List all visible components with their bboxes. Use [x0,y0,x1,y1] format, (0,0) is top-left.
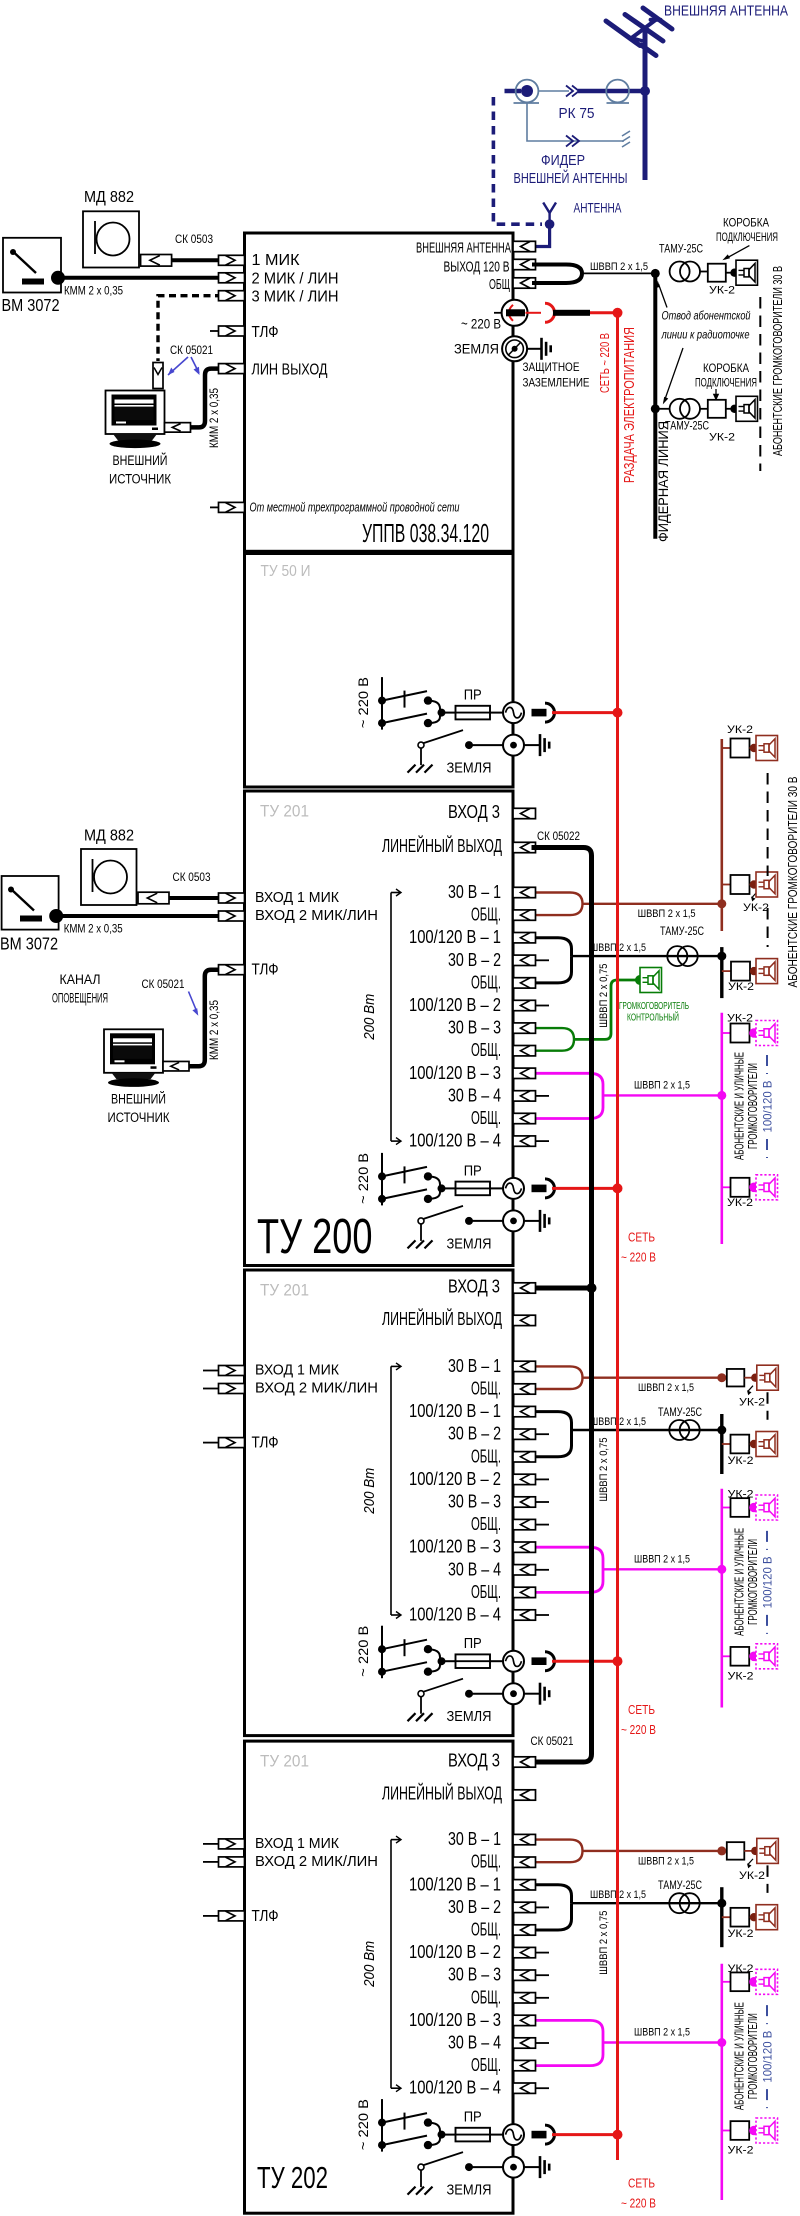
ground symbol (earth hatches) [408,765,433,773]
block ТУ 50 И outline [245,554,514,788]
svg-text:30 В – 3: 30 В – 3 [448,1018,501,1038]
svg-text:УК-2: УК-2 [739,1397,765,1409]
label ОБЩ. (ТУ200) [471,1040,501,1060]
svg-text:УК-2: УК-2 [727,1197,753,1209]
svg-text:ТАМУ-25С: ТАМУ-25С [658,1880,702,1892]
arrow chevrons on spare feeder [566,136,579,147]
speaker ГР (br1) [756,736,778,761]
label 30 В – 2 (ТУ202) [448,1897,501,1917]
device ВМ 3072 (2nd desk microphone) [2,876,59,930]
connector 30 В – 1 (ТУ201-2) [513,1361,536,1371]
svg-text:ГРОМКОГОВОРИТЕЛЬ: ГРОМКОГОВОРИТЕЛЬ [619,1001,689,1012]
svg-text:КОНТРОЛЬНЫЙ: КОНТРОЛЬНЫЙ [627,1011,679,1024]
label 100/120 В – 4 (ТУ200) [409,1131,501,1151]
wire УК-2 to speaker (brown ТУ201-2) [744,1374,759,1382]
ground terminal circle [503,1210,524,1231]
label КММ 2 х 0,35 (ТУ200 tlf cable) [209,1000,221,1060]
label УК-2 (mg1 ТУ200) [727,1013,753,1025]
svg-text:ЗЕМЛЯ: ЗЕМЛЯ [447,2183,492,2199]
svg-text:УППВ 038.34.120: УППВ 038.34.120 [362,518,489,548]
device ВНЕШНИЙ ИСТОЧНИК (2nd monitor) [104,1029,163,1087]
svg-text:ТАМУ-25С: ТАМУ-25С [658,1407,702,1419]
wire 30В-3/ОБЩ pair (green) (ТУ200) [535,1028,574,1051]
label ШВВП 2 х 1,5 (magenta) (ТУ201-2) [634,1553,690,1565]
label 100/120 В – 2 (ТУ202) [409,1942,501,1962]
label СЕТЬ ~220В (ТУ201-2) [621,1703,656,1737]
svg-text:100/120 В – 4: 100/120 В – 4 [409,1605,501,1625]
wire dashed antenna link [493,97,542,224]
arrow chevrons on RK75 wire [566,86,579,97]
svg-text:ВХОД 3: ВХОД 3 [448,1276,500,1297]
speaker ГРОМКОГОВОРИТЕЛЬ КОНТРОЛЬНЫЙ [640,968,662,993]
label ОБЩ. (ТУ201-2) [471,1582,501,1602]
label 30 В – 1 (ТУ202) [448,1829,501,1849]
label 100/120 В – 1 (ТУ201-2) [409,1401,501,1421]
wire stub ТЛФ (УППВ) [210,330,222,332]
wire stub 100/120В-4 (ТУ200) [536,1140,550,1142]
label ПР (fuse) [464,1636,482,1652]
svg-text:ВХОД 2 МИК/ЛИН: ВХОД 2 МИК/ЛИН [255,1381,378,1397]
wire drop to УК-2 (ТУ201-2) [722,1443,731,1445]
svg-text:УК-2: УК-2 [728,1455,754,1467]
dashed continuation (brown ТУ202) [767,1865,769,1893]
svg-text:ВМ 3072: ВМ 3072 [2,295,60,315]
svg-text:ШВВП 2 х 0,75: ШВВП 2 х 0,75 [598,1438,610,1502]
wire stub 30В-2 (ТУ200) [536,959,550,961]
label ВХОД 2 МИК/ЛИН (ТУ202) [255,1854,378,1870]
svg-text:~ 220 В: ~ 220 В [355,2099,371,2150]
device УК-2 (top) [708,264,726,282]
wire ground terminal left [465,1217,503,1225]
dashed boundary 100/120В (ТУ201-2) [766,1531,768,1634]
svg-text:~ 220 В: ~ 220 В [461,316,501,332]
wire dashed to 3 МИК [158,296,222,361]
svg-text:3 МИК / ЛИН: 3 МИК / ЛИН [252,289,339,306]
label 100/120 В (ТУ202) [761,2031,775,2083]
label ШВВП 2 х 0,75 (rotated) (ТУ200) [598,964,610,1028]
wire green to control speaker (ТУ200) [574,980,637,1039]
svg-text:ВНЕШНЯЯ АНТЕННА: ВНЕШНЯЯ АНТЕННА [416,240,511,257]
connector ОБЩ. (ТУ200) [513,978,536,988]
label 30 В – 1 (ТУ201-2) [448,1356,501,1376]
connector ВХОД 2 (ТУ200) [219,911,245,921]
label ОБЩ. (ТУ201-2) [471,1514,501,1534]
wire black to ТАМУ (ТУ202) [572,1902,722,1904]
bus СЕТЬ 220В (red) [616,313,619,2160]
block ТУ201-2 outline [245,1270,514,1736]
svg-text:ПР: ПР [464,1636,482,1652]
svg-text:100/120 В – 4: 100/120 В – 4 [409,1131,501,1151]
svg-text:ШВВП 2 х 1,5: ШВВП 2 х 1,5 [634,1553,690,1565]
wire stub ТЛФ (ТУ201-2) [203,1442,219,1444]
wire 100/120В-3/ОБЩ pair (magenta) (ТУ200) [535,1073,603,1118]
wire mains to power bus [552,711,618,714]
wire magenta feeder (ТУ202) [603,2041,722,2043]
wire 100/120В-1/ОБЩ pair (black) (ТУ202) [535,1885,572,1930]
label 100/120 В – 2 (ТУ200) [409,995,501,1015]
svg-text:УК-2: УК-2 [727,724,753,736]
svg-text:ШВВП 2 х 0,75: ШВВП 2 х 0,75 [598,1911,610,1975]
svg-text:ГРОМКОГОВОРИТЕЛИ: ГРОМКОГОВОРИТЕЛИ [746,2013,760,2099]
switch S double-pole [378,2113,456,2150]
label ЛИНЕЙНЫЙ ВЫХОД (ТУ202) [382,1783,502,1804]
wire brown feeder (ТУ200) [583,903,722,905]
connector ОБЩ [513,278,536,288]
wire brown feeder (ТУ201-2) [583,1376,722,1378]
wire УК-2 to speaker (brown ТУ202) [744,1847,759,1855]
ground terminal circle [503,735,524,756]
label ~220 В (power input) [355,677,371,728]
label ОБЩ. (ТУ200) [471,905,501,925]
wire ТАМУ to УК-2 (2nd) [700,408,708,410]
wire fuse to socket [490,712,503,714]
svg-text:СК 05022: СК 05022 [537,831,580,843]
svg-text:ФИДЕР: ФИДЕР [541,153,585,169]
wire ground right (УППВ) [527,348,542,350]
svg-text:30 В – 1: 30 В – 1 [448,882,501,902]
connector ВХОД 3 (ТУ200) [513,808,536,818]
svg-text:ОПОВЕЩЕНИЯ: ОПОВЕЩЕНИЯ [52,990,108,1006]
svg-text:УК-2: УК-2 [728,1670,754,1682]
wire fuse to socket [490,2134,503,2136]
wire stub 30В-2 (ТУ201-2) [536,1433,550,1435]
ground terminal (УППВ) [502,336,527,361]
svg-text:30 В – 4: 30 В – 4 [448,1085,501,1105]
svg-text:ОБЩ: ОБЩ [489,276,510,293]
callout arrow КОРОБКА (top) [722,246,749,261]
svg-text:ВНЕШНИЙ: ВНЕШНИЙ [111,1092,166,1107]
wire 100/120В-1/ОБЩ pair (black) (ТУ200) [535,938,572,983]
socket X (chassis AC inlet) [503,2124,524,2145]
svg-text:ОБЩ.: ОБЩ. [471,1920,501,1940]
socket X (chassis AC inlet) [503,1651,524,1672]
bracket 200 Вт (ТУ200) [391,889,401,1145]
label УК-2 (br2) [743,892,769,914]
connector ТЛФ (ТУ200) [219,965,245,975]
svg-text:ВНЕШНЯЯ АНТЕННА: ВНЕШНЯЯ АНТЕННА [664,4,788,20]
bus 100/120В line (magenta ТУ201-2) [720,1489,723,1708]
switch S double-pole [378,691,456,728]
label ТУ 200 [257,1210,373,1264]
label ШВВП 2 х 0,75 (rotated) (ТУ202) [598,1911,610,1975]
transformer ТАМУ-25С (ТУ201-2) [669,1420,699,1440]
svg-text:АБОНЕНТСКИЕ ГРОМКОГОВОРИТЕЛИ: АБОНЕНТСКИЕ ГРОМКОГОВОРИТЕЛИ 30 В [785,777,800,988]
label 100/120 В – 1 (ТУ202) [409,1874,501,1894]
speaker ГР (mg1 ТУ201-2) [756,1495,778,1520]
svg-text:ВХОД 2 МИК/ЛИН: ВХОД 2 МИК/ЛИН [255,1854,378,1870]
svg-text:КММ 2 х 0,35: КММ 2 х 0,35 [64,924,123,936]
label ШВВП 2 х 1,5 (black) (ТУ202) [590,1889,646,1901]
connector СК 0503 plug [141,255,172,267]
device УК-2 (brown ТУ202) [727,1842,745,1860]
node ВМ3072 output [51,271,65,285]
svg-text:ПР: ПР [464,688,482,704]
node control speaker [635,975,645,985]
svg-text:ТЛФ: ТЛФ [252,1908,279,1925]
connector 30 В – 4 (ТУ201-2) [513,1565,536,1575]
connector 30 В – 1 (ТУ200) [513,887,536,897]
svg-text:30 В – 4: 30 В – 4 [448,2033,501,2053]
fuse ПР [456,1182,491,1196]
label КАНАЛ ОПОВЕЩЕНИЯ [52,971,108,1006]
svg-text:1 МИК: 1 МИК [252,252,300,269]
node ВХОД 3 tap (ТУ201-2) [536,1283,597,1293]
svg-text:ШВВП 2 х 1,5: ШВВП 2 х 1,5 [638,1855,694,1867]
svg-text:ОБЩ.: ОБЩ. [471,1379,501,1399]
svg-text:ГРОМКОГОВОРИТЕЛИ: ГРОМКОГОВОРИТЕЛИ [746,1539,760,1625]
label ШВВП 2 х 1,5 (black) (ТУ201-2) [590,1416,646,1428]
label ВХОД 1 МИК (ТУ201-2) [255,1363,340,1379]
bracket 200 Вт (ТУ202) [391,1836,401,2092]
label ВМ 3072 (ТУ200) [0,934,58,954]
label ПР (fuse) [464,2110,482,2126]
callout arrow отвод (to top node) [656,281,668,308]
wire УК-2 to speaker (mg2 ТУ200) [749,1183,759,1193]
label ТУ 201 (ТУ202) [260,1753,309,1771]
connector ОБЩ. (ТУ202) [513,1925,536,1935]
chassis ground (УППВ) [542,338,551,360]
label СК 05021 (ТУ200) [142,979,185,991]
connector 100/120 В – 2 (ТУ200) [513,1000,536,1010]
svg-text:УК-2: УК-2 [709,285,735,297]
label УК-2 (brown ТУ201-2) [739,1386,765,1409]
wire МД882 to ВХОД 1 [169,896,219,900]
svg-text:УК-2: УК-2 [728,1928,754,1940]
fuse ПР [456,706,491,720]
connector 30 В – 4 (ТУ202) [513,2038,536,2048]
svg-text:КММ 2 х 0,35: КММ 2 х 0,35 [209,388,221,448]
wire stub 100/120В-2 (ТУ200) [536,1005,550,1007]
svg-text:СЕТЬ: СЕТЬ [628,2177,655,2191]
wire mains input vertical [381,1153,383,1206]
chassis ground bars [540,1210,549,1232]
connector 100/120 В – 3 (ТУ201-2) [513,1542,536,1552]
svg-text:ТУ 201: ТУ 201 [260,803,309,821]
socket X (chassis AC inlet) [503,702,524,723]
connector 100/120 В – 2 (ТУ202) [513,1947,536,1957]
svg-text:УК-2: УК-2 [709,432,735,444]
label ТУ 50 И [261,563,311,580]
svg-text:РАЗДАЧА ЭЛЕКТРОПИТАНИЯ: РАЗДАЧА ЭЛЕКТРОПИТАНИЯ [621,327,638,483]
label ПР (fuse) [464,1163,482,1179]
switch S double-pole [378,1639,456,1676]
wire fuse to socket [490,1187,503,1189]
callout arrow СК 05021 (ТУ200) [189,992,199,1016]
wire stub 100/120В-2 (ТУ201-2) [536,1478,550,1480]
switch S double-pole [378,1166,456,1203]
connector monitor plug [165,423,191,433]
svg-text:МД 882: МД 882 [84,828,134,845]
speaker ГР (ТАМУ ТУ202) [756,1905,778,1930]
svg-text:От местной трехпрограммной про: От местной трехпрограммной проводной сет… [250,501,460,515]
svg-text:ОБЩ.: ОБЩ. [471,2055,501,2075]
label УК-2 (ТАМУ ТУ202) [728,1928,754,1940]
svg-text:АБОНЕНТСКИЕ ГРОМКОГОВОРИТЕЛИ: АБОНЕНТСКИЕ ГРОМКОГОВОРИТЕЛИ 30 В [770,266,785,456]
wire УК-2 to speaker (top) [726,269,739,277]
connector 30 В – 1 (ТУ202) [513,1834,536,1844]
wire 30В-1/ОБЩ pair (brown) (ТУ201-2) [535,1366,583,1389]
antenna symbol (small) [543,203,556,225]
svg-text:ВХОД 3: ВХОД 3 [448,1750,500,1771]
speaker ГР (mg2 ТУ200) [756,1175,778,1200]
svg-text:100/120 В – 3: 100/120 В – 3 [409,1537,501,1557]
svg-text:ШВВП 2 х 1,5: ШВВП 2 х 1,5 [634,1079,690,1091]
plug (mains plug symbol) [532,1652,555,1671]
svg-text:100/120 В – 3: 100/120 В – 3 [409,1063,501,1083]
label РК 75 [559,105,595,122]
connector 100/120 В – 1 (ТУ200) [513,933,536,943]
svg-text:30 В – 2: 30 В – 2 [448,1424,501,1444]
ground terminal circle [503,2157,524,2178]
connector ТЛФ (ТУ202) [219,1911,245,1921]
block УППВ 038.34.120 outline [245,233,514,551]
wire black to ТАМУ (ТУ201-2) [572,1429,722,1431]
svg-text:СК 05021: СК 05021 [531,1736,574,1748]
device УК-2 (brown ТУ201-2) [727,1369,745,1387]
label ЗЕМЛЯ [447,2183,492,2199]
label ВХОД 3 (ТУ201-2) [448,1276,500,1297]
device ВМ 3072 (desk microphone) [3,238,61,293]
connector ВХОД 1 (ТУ201-2) [219,1366,245,1376]
node ТАМУ junction (ТУ201-2) [717,1426,726,1435]
label ВХОД 2 МИК/ЛИН (ТУ201-2) [255,1381,378,1397]
svg-text:ШВВП 2 х 1,5: ШВВП 2 х 1,5 [634,2027,690,2039]
svg-text:КОРОБКА: КОРОБКА [703,363,749,375]
svg-text:ОБЩ.: ОБЩ. [471,905,501,925]
label МД 882 [84,189,134,206]
connector XW1 (coax plug) [505,80,540,103]
svg-text:200 Вт: 200 Вт [361,1941,378,1988]
label ЗЕМЛЯ [447,1236,492,1252]
node antenna tap [545,219,555,229]
wire УК-2 to speaker (2nd) [726,405,739,413]
earth switch [418,2152,463,2187]
ground symbol (earth hatches) [408,1240,433,1248]
wire to ТАМУ-25С (top) [582,272,655,274]
svg-text:100/120 В – 3: 100/120 В – 3 [409,2010,501,2030]
label ТУ 201 (ТУ200) [260,803,309,821]
svg-text:ФИДЕРНАЯ ЛИНИЯ: ФИДЕРНАЯ ЛИНИЯ [656,421,671,542]
connector ВХОД 1 (ТУ202) [219,1839,245,1849]
svg-text:СЕТЬ: СЕТЬ [628,1703,655,1717]
label ВХОД 3 (ТУ200) [448,801,500,822]
label РАЗДАЧА ЭЛЕКТРОПИТАНИЯ [621,327,638,483]
wire bus to УК-2 (mg1 ТУ201-2) [722,1507,731,1509]
label АБОНЕНТСКИЕ ГРОМКОГОВОРИТЕЛИ 30 В (ТУ200) [785,777,800,988]
wire ground terminal right [524,2166,540,2168]
svg-text:ЛИНЕЙНЫЙ ВЫХОД: ЛИНЕЙНЫЙ ВЫХОД [382,835,502,856]
antenna boom and feed [632,19,661,42]
svg-text:100/120 В: 100/120 В [761,1556,775,1608]
label ШВВП 2 х 1,5 (brown ТУ202) [638,1855,694,1867]
wire ground terminal right [524,1693,540,1695]
svg-text:КММ 2 х 0,35: КММ 2 х 0,35 [209,1000,221,1060]
svg-text:~ 220 В: ~ 220 В [355,1153,371,1204]
svg-text:200 Вт: 200 Вт [361,994,378,1041]
earth switch [418,1679,463,1714]
wire УК-2 to speaker (mg1 ТУ200) [749,1028,759,1038]
label УК-2 (ТАМУ ТУ201-2) [728,1455,754,1467]
plug contact bars (УППВ) [506,303,590,322]
wire УК-2 to speaker (br1) [750,744,759,752]
svg-text:ВНЕШНИЙ: ВНЕШНИЙ [113,453,168,468]
label УК-2 (brown ТУ202) [739,1859,765,1882]
wire black to ТАМУ (ТУ200) [572,955,722,957]
connector XW2 (coax socket) [606,80,629,103]
node brown feeder junction (ТУ201-2) [717,1373,726,1382]
label ВЫХОД 120 В [444,259,510,276]
wire stub 30В-4 (ТУ200) [536,1095,550,1097]
wire stub ОБЩ-3 (ТУ201-2) [536,1524,550,1526]
svg-text:АБОНЕНТСКИЕ И УЛИЧНЫЕ: АБОНЕНТСКИЕ И УЛИЧНЫЕ [733,1052,747,1160]
wire 100/120В-3/ОБЩ pair (magenta) (ТУ202) [535,2020,603,2065]
svg-text:~ 220 В: ~ 220 В [355,677,371,728]
svg-text:30 В – 2: 30 В – 2 [448,950,501,970]
label ШВВП 2 х 1,5 (magenta) (ТУ202) [634,2027,690,2039]
node mast junction [640,86,650,96]
wire УК-2 to speaker (mg2 ТУ202) [749,2126,759,2136]
connector ОБЩ. (ТУ201-2) [513,1519,536,1529]
label ОБЩ. (ТУ202) [471,2055,501,2075]
svg-text:2 МИК / ЛИН: 2 МИК / ЛИН [252,271,339,288]
wire УК-2 to speaker (br2) [750,880,759,888]
wire УК-2 to speaker (ТАМУ ТУ200) [750,967,758,975]
wire stub 30В-3 (ТУ201-2) [536,1501,550,1503]
bus ТАМУ drop (ТУ200) [720,947,723,998]
node ВМ3072 output (ТУ200) [49,909,63,923]
label ВНЕШНИЙ ИСТОЧНИК (ТУ200) [108,1092,170,1126]
label 100/120 В – 3 (ТУ202) [409,2010,501,2030]
connector ОБЩ. (ТУ201-2) [513,1452,536,1462]
svg-text:~ 220 В: ~ 220 В [621,1250,656,1264]
fuse ПР [456,1654,491,1668]
label ОБЩ. (ТУ202) [471,1920,501,1940]
label ~ 220 В (УППВ) [461,316,501,332]
cable ЛИНЕЙНЫЙ ВЫХОД trunk [532,848,592,1763]
device МД 882 (2nd microphone) [81,849,137,905]
bus 30В subscriber line (brown) [720,739,723,931]
device УК-2 (ТАМУ ТУ200) [731,962,750,981]
connector 100/120 В – 1 (ТУ201-2) [513,1406,536,1416]
connector От местной сети [219,502,245,512]
speaker ГР (ТАМУ ТУ200) [756,959,778,984]
connector ОБЩ. (ТУ200) [513,1113,536,1123]
label КОРОБКА ПОДКЛЮЧЕНИЯ (top) [716,218,778,245]
svg-text:ТЛФ: ТЛФ [252,1435,279,1452]
wire stub 100/120В-4 (ТУ201-2) [536,1614,550,1616]
wire drop to УК-2 (ТУ200) [722,970,731,972]
svg-text:100/120 В – 1: 100/120 В – 1 [409,1401,501,1421]
svg-text:ГРОМКОГОВОРИТЕЛИ: ГРОМКОГОВОРИТЕЛИ [746,1063,760,1149]
device УК-2 (mg1 ТУ202) [731,1972,750,1991]
svg-text:СК 05021: СК 05021 [142,979,185,991]
label 30 В – 4 (ТУ202) [448,2033,501,2053]
label 30 В – 1 (ТУ200) [448,882,501,902]
bus 100/120В line (magenta ТУ202) [720,1964,723,2200]
label СЕТЬ ~220В (ТУ202) [621,2177,656,2211]
label ГРОМКОГОВОРИТЕЛЬ КОНТРОЛЬНЫЙ [619,1001,689,1024]
label ЛИНЕЙНЫЙ ВЫХОД (ТУ200) [382,835,502,856]
svg-text:ОБЩ.: ОБЩ. [471,1582,501,1602]
svg-text:ШВВП 2 х 1,5: ШВВП 2 х 1,5 [638,908,696,920]
svg-text:100/120 В – 2: 100/120 В – 2 [409,1942,501,1962]
label 200 Вт (ТУ201-2) [361,1468,378,1515]
label ШВВП 2 х 1,5 (top) [590,261,648,273]
speaker ГР (mg2 ТУ202) [756,2118,778,2143]
wire УК-2 to speaker (ТАМУ ТУ202) [750,1913,758,1921]
speaker ГР (ТАМУ ТУ201-2) [756,1432,778,1457]
bus ТАМУ drop (ТУ201-2) [720,1414,723,1474]
